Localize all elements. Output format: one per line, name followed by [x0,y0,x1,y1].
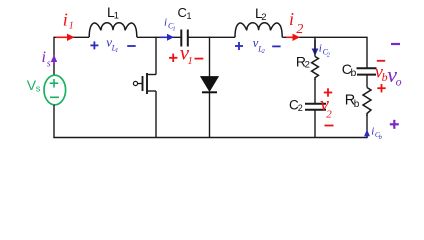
svg-text:1: 1 [187,11,192,21]
label vL2 polarity [235,36,281,55]
svg-text:i: i [319,42,322,54]
svg-text:1: 1 [115,48,118,54]
capacitor C2 [305,104,326,110]
svg-text:b: b [351,67,357,79]
label i2 [289,9,303,37]
svg-text:2: 2 [262,49,265,55]
wire left vertical below source [53,105,55,138]
svg-text:s: s [47,59,51,70]
svg-text:2: 2 [298,103,303,113]
wire top rail L2 to corner [282,37,367,68]
label L2 [255,5,267,23]
wire top rail C1 to L2 [188,36,235,38]
svg-text:i: i [289,9,294,29]
label vL1 polarity [90,35,135,55]
label iCb [371,125,382,141]
svg-text:i: i [371,125,374,137]
svg-text:1: 1 [173,27,176,33]
label L1 [107,4,119,21]
wire R2 branch top [314,37,316,57]
svg-text:b: b [379,135,382,141]
label Cb [342,61,357,79]
label C1 [178,5,192,21]
svg-text:o: o [396,75,402,89]
label C2 [289,97,303,113]
svg-text:2: 2 [296,22,303,37]
label output plus [390,120,399,129]
svg-text:2: 2 [327,52,330,58]
diode D1 [201,77,218,93]
current arrow iCb [364,129,370,137]
svg-text:s: s [36,84,41,95]
svg-text:1: 1 [114,11,119,22]
resistor Rb [363,88,371,117]
label i1 [63,9,74,31]
label v2 polarity [320,88,334,125]
wire R2 to C2 [314,79,316,103]
wire top rail L1 to C1 [137,36,181,38]
label is [42,49,51,70]
current arrow i2 [286,34,300,41]
current arrow iC2 [312,40,319,56]
wire bottom rail [53,137,367,139]
label vo [387,62,401,89]
wire Cb to Rb [366,75,368,88]
current arrow iC1 [160,34,174,41]
svg-text:b: b [354,99,360,110]
transistor Q1 (MOSFET) [133,37,156,138]
svg-text:i: i [164,17,167,29]
svg-text:i: i [63,9,68,29]
wire Rb bottom [366,115,368,138]
inductor L2 [235,23,282,38]
current arrow is [51,55,57,65]
label Vs [27,77,41,95]
svg-text:1: 1 [187,55,193,67]
label output minus [391,43,400,45]
inductor L1 [89,23,137,38]
label Rb [345,92,360,110]
voltage source Vs [44,75,66,105]
wire diode branch bottom [209,92,211,137]
wire C2 bottom [314,111,316,138]
label v1 polarity [169,40,203,67]
svg-text:2: 2 [261,12,266,23]
wire diode branch top [209,37,211,77]
label vb polarity [375,61,388,93]
capacitor Cb [357,68,377,74]
svg-text:2: 2 [326,108,332,120]
capacitor C1 [181,30,188,47]
current arrow i1 [56,34,75,41]
svg-text:C: C [178,5,187,20]
label iC2 [319,42,330,58]
label R2 [296,54,310,71]
resistor R2 [312,57,319,81]
wire top rail left segment [54,37,89,75]
svg-text:2: 2 [305,60,310,71]
label iC1 [164,17,176,33]
svg-text:1: 1 [69,21,74,32]
svg-text:i: i [42,49,46,66]
